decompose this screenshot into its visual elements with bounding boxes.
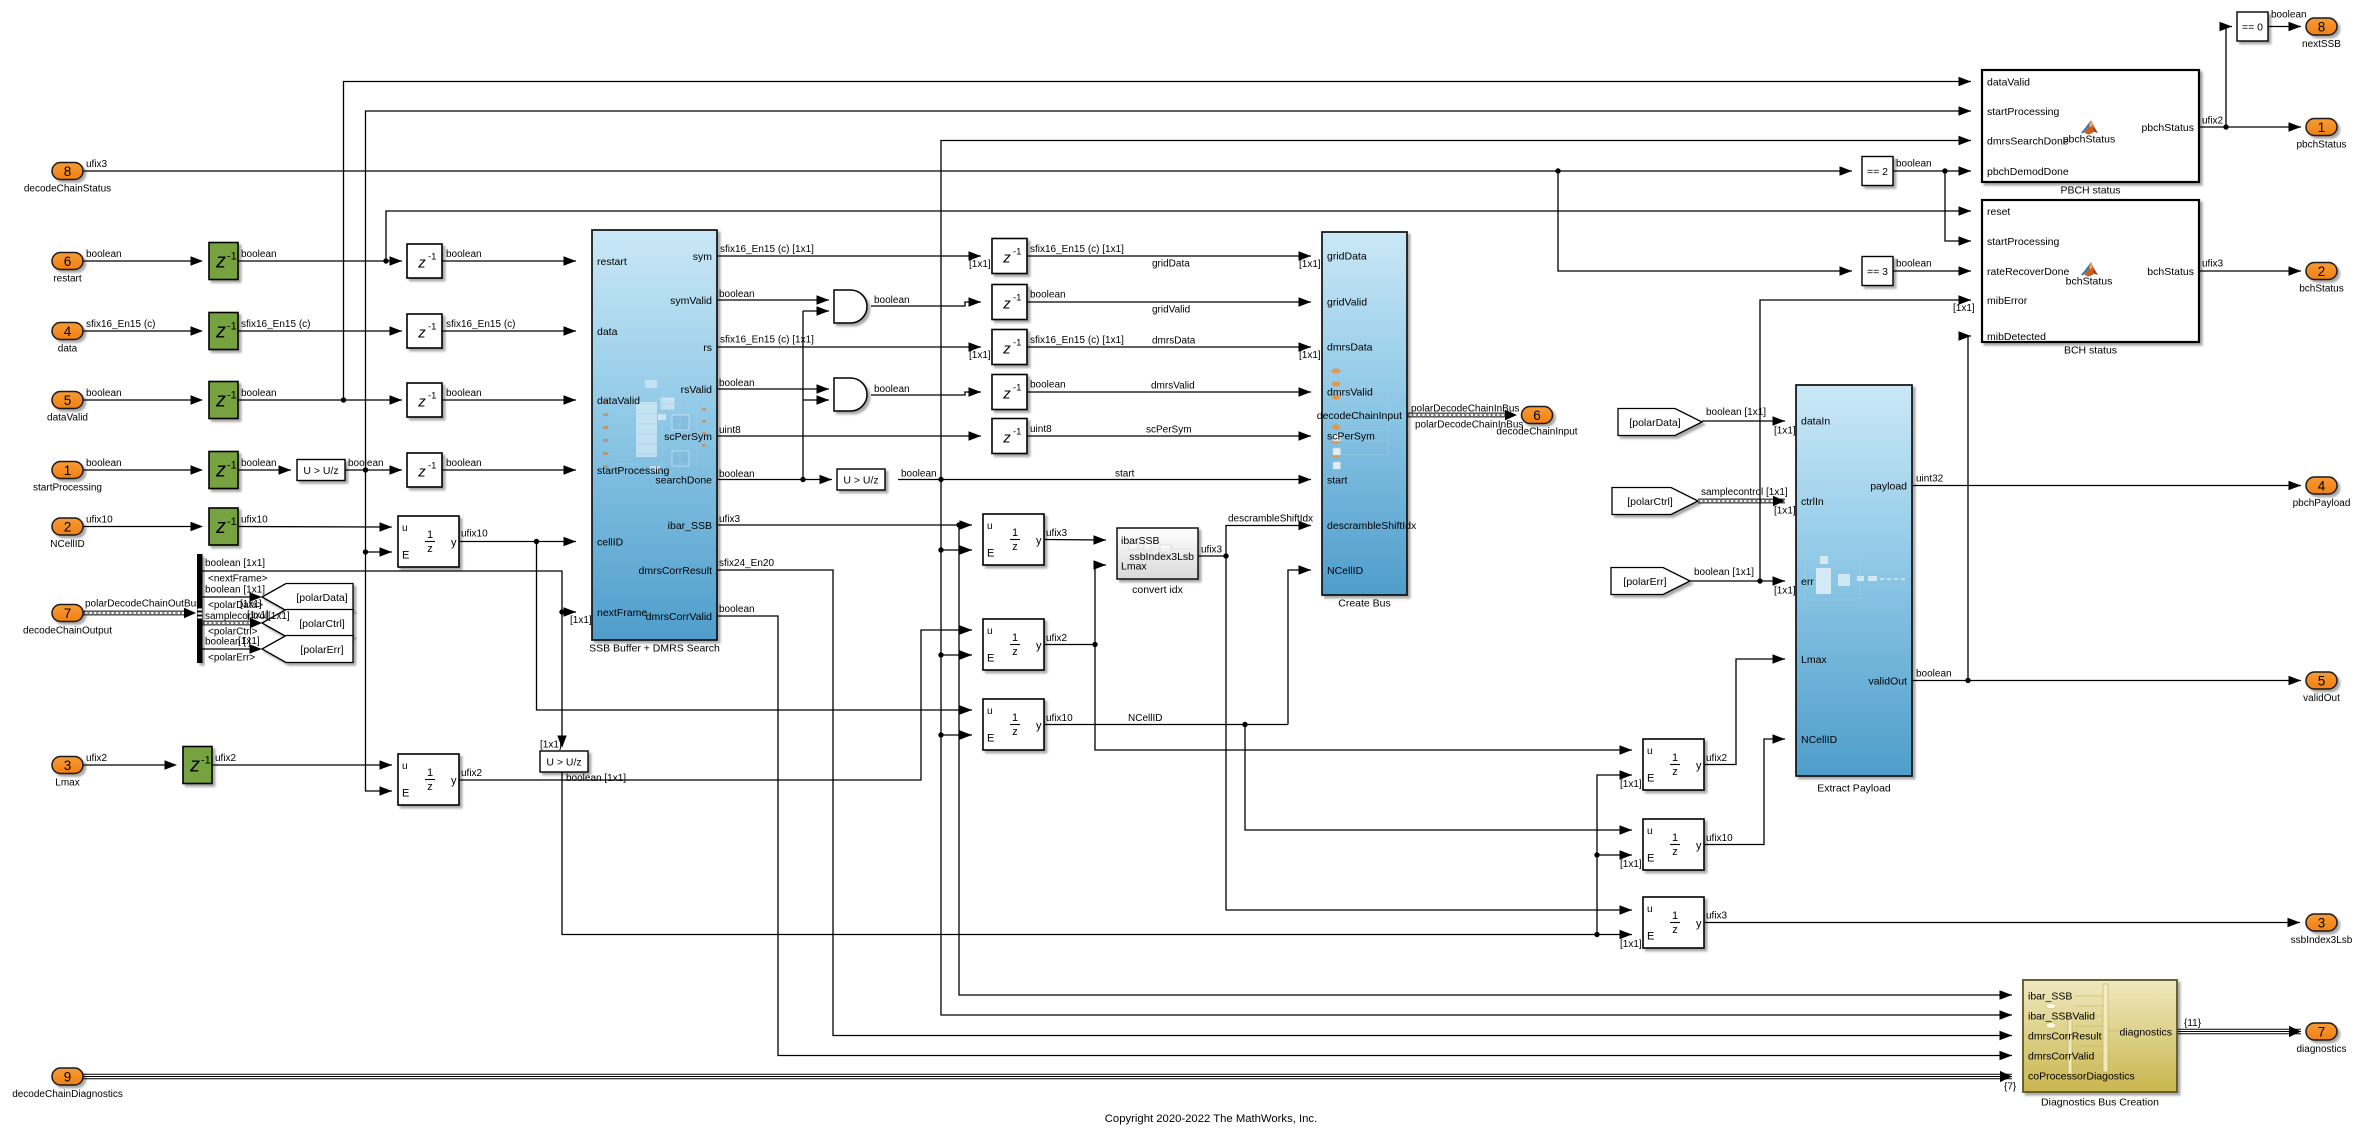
svg-text:scPerSym: scPerSym — [1146, 425, 1192, 436]
svg-text:ufix2: ufix2 — [2202, 116, 2224, 127]
svg-text:1: 1 — [427, 767, 433, 779]
svg-text:sfix16_En15 (c) [1x1]: sfix16_En15 (c) [1x1] — [1030, 244, 1124, 255]
svg-text:boolean: boolean — [1030, 380, 1066, 391]
svg-text:E: E — [1647, 853, 1654, 865]
svg-text:dataValid: dataValid — [597, 395, 640, 407]
svg-text:ufix3: ufix3 — [1046, 528, 1068, 539]
svg-text:boolean [1x1]: boolean [1x1] — [205, 585, 265, 596]
svg-text:boolean: boolean — [446, 249, 482, 260]
svg-text:bchStatus: bchStatus — [2299, 284, 2343, 295]
svg-text:descrambleShiftIdx: descrambleShiftIdx — [1228, 514, 1313, 525]
svg-text:boolean: boolean — [241, 458, 277, 469]
svg-text:5: 5 — [64, 393, 72, 408]
svg-text:dataValid: dataValid — [1987, 77, 2030, 89]
svg-text:[polarErr]: [polarErr] — [300, 644, 343, 656]
svg-text:Lmax: Lmax — [1801, 654, 1827, 666]
svg-text:[polarCtrl]: [polarCtrl] — [1627, 496, 1673, 508]
svg-text:y: y — [451, 775, 457, 787]
svg-text:sfix16_En15 (c) [1x1]: sfix16_En15 (c) [1x1] — [720, 335, 814, 346]
svg-text:1: 1 — [1672, 752, 1678, 764]
svg-text:Diagnostics Bus Creation: Diagnostics Bus Creation — [2041, 1097, 2159, 1109]
svg-text:[1x1]: [1x1] — [240, 599, 262, 610]
svg-text:ufix2: ufix2 — [1046, 633, 1068, 644]
svg-text:mibDetected: mibDetected — [1987, 331, 2046, 343]
svg-text:coProcessorDiagostics: coProcessorDiagostics — [2028, 1071, 2135, 1083]
svg-text:validOut: validOut — [2303, 693, 2340, 704]
svg-text:sfix16_En15 (c) [1x1]: sfix16_En15 (c) [1x1] — [720, 244, 814, 255]
svg-text:U > U/z: U > U/z — [843, 474, 878, 486]
svg-text:[1x1]: [1x1] — [1953, 303, 1975, 314]
svg-text:data: data — [58, 344, 78, 355]
svg-text:1: 1 — [1012, 527, 1018, 539]
svg-text:dmrsCorrResult: dmrsCorrResult — [2028, 1031, 2102, 1043]
svg-text:z: z — [427, 781, 433, 793]
svg-text:-1: -1 — [1013, 293, 1021, 304]
svg-text:z: z — [1002, 386, 1011, 403]
svg-text:decodeChainDiagnostics: decodeChainDiagnostics — [12, 1089, 123, 1100]
svg-text:[1x1]: [1x1] — [1620, 779, 1642, 790]
svg-text:PBCH status: PBCH status — [2060, 185, 2120, 197]
svg-text:3: 3 — [2318, 916, 2326, 931]
svg-text:sfix16_En15 (c) [1x1]: sfix16_En15 (c) [1x1] — [1030, 335, 1124, 346]
svg-text:-1: -1 — [428, 322, 436, 333]
svg-text:dataIn: dataIn — [1801, 416, 1830, 428]
svg-text:sfix24_En20: sfix24_En20 — [719, 558, 774, 569]
svg-text:-1: -1 — [1013, 247, 1021, 258]
svg-text:boolean: boolean — [874, 295, 910, 306]
svg-text:boolean: boolean — [1916, 669, 1952, 680]
svg-text:z: z — [215, 390, 226, 412]
svg-text:-1: -1 — [227, 516, 237, 528]
svg-text:z: z — [417, 394, 426, 411]
svg-text:boolean: boolean — [86, 249, 122, 260]
svg-text:gridValid: gridValid — [1152, 305, 1190, 316]
svg-text:4: 4 — [2318, 479, 2326, 494]
svg-text:boolean: boolean — [719, 604, 755, 615]
svg-text:z: z — [215, 251, 226, 273]
svg-text:boolean: boolean — [1896, 159, 1932, 170]
svg-text:SSB Buffer + DMRS Search: SSB Buffer + DMRS Search — [589, 643, 720, 655]
svg-text:9: 9 — [64, 1070, 72, 1085]
svg-text:[1x1]: [1x1] — [1620, 939, 1642, 950]
svg-text:-1: -1 — [227, 390, 237, 402]
svg-text:boolean: boolean — [446, 458, 482, 469]
svg-text:ufix3: ufix3 — [1706, 911, 1728, 922]
svg-text:diagnostics: diagnostics — [2119, 1027, 2172, 1039]
svg-text:[polarData]: [polarData] — [1629, 417, 1680, 429]
svg-text:z: z — [427, 543, 433, 555]
svg-text:-1: -1 — [1013, 427, 1021, 438]
svg-text:polarDecodeChainOutBus: polarDecodeChainOutBus — [85, 599, 201, 610]
svg-text:<polarErr>: <polarErr> — [208, 653, 255, 664]
svg-text:startProcessing: startProcessing — [33, 483, 102, 494]
svg-text:pbchDemodDone: pbchDemodDone — [1987, 166, 2069, 178]
svg-text:boolean [1x1]: boolean [1x1] — [1706, 407, 1766, 418]
svg-text:pbchStatus: pbchStatus — [2141, 122, 2194, 134]
svg-text:y: y — [1036, 535, 1042, 547]
svg-text:searchDone: searchDone — [655, 475, 712, 487]
svg-text:sfix16_En15 (c): sfix16_En15 (c) — [241, 319, 310, 330]
svg-text:sfix16_En15 (c): sfix16_En15 (c) — [86, 319, 155, 330]
svg-text:boolean: boolean — [2271, 10, 2307, 21]
svg-text:Lmax: Lmax — [55, 778, 79, 789]
svg-text:dmrsCorrValid: dmrsCorrValid — [2028, 1051, 2094, 1063]
svg-text:ibarSSB: ibarSSB — [1121, 535, 1160, 547]
svg-text:u: u — [1647, 826, 1653, 837]
svg-text:dmrsData: dmrsData — [1327, 342, 1373, 354]
svg-text:E: E — [987, 733, 994, 745]
svg-text:z: z — [215, 460, 226, 482]
svg-text:ufix10: ufix10 — [1706, 833, 1733, 844]
svg-text:u: u — [402, 523, 408, 534]
svg-text:u: u — [987, 706, 993, 717]
svg-text:pbchStatus: pbchStatus — [2063, 134, 2116, 146]
svg-text:[1x1]: [1x1] — [1774, 506, 1796, 517]
svg-text:convert idx: convert idx — [1132, 584, 1184, 596]
svg-text:Copyright 2020-2022 The MathWo: Copyright 2020-2022 The MathWorks, Inc. — [1105, 1113, 1317, 1125]
svg-text:bchStatus: bchStatus — [2066, 276, 2113, 288]
svg-text:restart: restart — [53, 274, 82, 285]
svg-text:6: 6 — [64, 254, 72, 269]
svg-text:1: 1 — [427, 529, 433, 541]
svg-text:ufix10: ufix10 — [241, 515, 268, 526]
svg-text:nextSSB: nextSSB — [2302, 39, 2341, 50]
svg-text:E: E — [1647, 931, 1654, 943]
svg-text:U > U/z: U > U/z — [546, 756, 581, 768]
svg-text:uint32: uint32 — [1916, 474, 1944, 485]
svg-text:u: u — [402, 761, 408, 772]
svg-text:3: 3 — [64, 758, 72, 773]
svg-text:u: u — [1647, 746, 1653, 757]
svg-text:reset: reset — [1987, 206, 2010, 218]
svg-text:decodeChainInput: decodeChainInput — [1317, 410, 1402, 422]
svg-text:U > U/z: U > U/z — [303, 465, 338, 477]
svg-text:uint8: uint8 — [719, 425, 741, 436]
svg-text:uint8: uint8 — [1030, 424, 1052, 435]
svg-text:z: z — [417, 325, 426, 342]
svg-text:sfix16_En15 (c): sfix16_En15 (c) — [446, 319, 515, 330]
svg-text:[polarData]: [polarData] — [296, 592, 347, 604]
svg-text:E: E — [402, 788, 409, 800]
svg-text:8: 8 — [64, 164, 72, 179]
svg-text:ibar_SSB: ibar_SSB — [668, 520, 712, 532]
svg-text:scPerSym: scPerSym — [1327, 431, 1375, 443]
svg-text:z: z — [1002, 296, 1011, 313]
svg-text:boolean [1x1]: boolean [1x1] — [1694, 567, 1754, 578]
svg-text:ufix3: ufix3 — [2202, 259, 2224, 270]
svg-text:E: E — [1647, 773, 1654, 785]
svg-text:7: 7 — [64, 606, 72, 621]
svg-text:dataValid: dataValid — [47, 413, 88, 424]
svg-text:dmrsCorrResult: dmrsCorrResult — [638, 565, 712, 577]
svg-text:ufix3: ufix3 — [1201, 545, 1223, 556]
svg-text:-1: -1 — [428, 391, 436, 402]
svg-text:8: 8 — [2318, 20, 2326, 35]
svg-text:boolean: boolean — [719, 289, 755, 300]
svg-text:z: z — [189, 755, 200, 777]
svg-text:z: z — [1012, 726, 1018, 738]
svg-text:dmrsValid: dmrsValid — [1151, 381, 1195, 392]
svg-text:nextFrame: nextFrame — [597, 607, 647, 619]
svg-text:[polarCtrl]: [polarCtrl] — [299, 618, 345, 630]
svg-text:ufix2: ufix2 — [215, 753, 237, 764]
svg-text:pbchStatus: pbchStatus — [2296, 140, 2346, 151]
svg-text:u: u — [987, 626, 993, 637]
svg-text:boolean: boolean — [446, 388, 482, 399]
svg-text:boolean: boolean — [348, 458, 384, 469]
svg-text:boolean [1x1]: boolean [1x1] — [205, 558, 265, 569]
svg-text:u: u — [987, 521, 993, 532]
svg-text:y: y — [1696, 760, 1702, 772]
svg-text:dmrsData: dmrsData — [1152, 336, 1196, 347]
svg-text:NCellID: NCellID — [1327, 565, 1364, 577]
svg-text:boolean: boolean — [86, 458, 122, 469]
svg-text:boolean [1x1]: boolean [1x1] — [566, 773, 626, 784]
svg-text:diagnostics: diagnostics — [2296, 1044, 2346, 1055]
svg-text:-1: -1 — [227, 460, 237, 472]
svg-text:ufix10: ufix10 — [86, 515, 113, 526]
svg-text:1: 1 — [64, 463, 72, 478]
svg-text:ufix10: ufix10 — [461, 529, 488, 540]
svg-text:1: 1 — [1012, 712, 1018, 724]
svg-text:== 0: == 0 — [2242, 22, 2263, 34]
svg-text:[polarErr]: [polarErr] — [1623, 576, 1666, 588]
svg-text:ibar_SSBValid: ibar_SSBValid — [2028, 1011, 2095, 1023]
svg-text:y: y — [1696, 918, 1702, 930]
svg-text:ssbIndex3Lsb: ssbIndex3Lsb — [1129, 551, 1194, 563]
svg-text:startProcessing: startProcessing — [1987, 106, 2060, 118]
svg-text:1: 1 — [1012, 632, 1018, 644]
svg-text:z: z — [1672, 766, 1678, 778]
svg-text:ufix2: ufix2 — [1706, 753, 1728, 764]
svg-text:payload: payload — [1870, 481, 1907, 493]
svg-text:gridData: gridData — [1152, 259, 1190, 270]
svg-text:<nextFrame>: <nextFrame> — [208, 574, 268, 585]
svg-text:dmrsCorrValid: dmrsCorrValid — [646, 611, 712, 623]
svg-text:[1x1]: [1x1] — [570, 615, 592, 626]
svg-text:-1: -1 — [227, 321, 237, 333]
svg-text:dmrsSearchDone: dmrsSearchDone — [1987, 136, 2069, 148]
svg-text:boolean: boolean — [241, 249, 277, 260]
svg-text:restart: restart — [597, 256, 627, 268]
svg-text:boolean: boolean — [874, 384, 910, 395]
svg-text:5: 5 — [2318, 674, 2326, 689]
svg-text:2: 2 — [64, 520, 72, 535]
svg-text:z: z — [1672, 846, 1678, 858]
svg-text:[1x1]: [1x1] — [1620, 859, 1642, 870]
svg-text:boolean: boolean — [86, 388, 122, 399]
svg-text:polarDecodeChainInBus: polarDecodeChainInBus — [1411, 404, 1519, 415]
svg-text:u: u — [1647, 904, 1653, 915]
svg-text:z: z — [1672, 924, 1678, 936]
svg-text:NCellID: NCellID — [1128, 713, 1162, 724]
svg-text:decodeChainOutput: decodeChainOutput — [23, 626, 112, 637]
svg-text:y: y — [1036, 640, 1042, 652]
svg-text:ufix10: ufix10 — [1046, 713, 1073, 724]
svg-text:== 2: == 2 — [1867, 166, 1888, 178]
svg-text:boolean: boolean — [1896, 259, 1932, 270]
svg-text:rs: rs — [703, 342, 712, 354]
svg-text:sym: sym — [693, 251, 713, 263]
svg-text:-1: -1 — [227, 251, 237, 263]
svg-text:4: 4 — [64, 324, 72, 339]
svg-text:-1: -1 — [1013, 383, 1021, 394]
svg-text:7: 7 — [2318, 1025, 2326, 1040]
svg-text:BCH status: BCH status — [2064, 345, 2117, 357]
svg-text:NCellID: NCellID — [1801, 734, 1838, 746]
svg-text:descrambleShiftIdx: descrambleShiftIdx — [1327, 520, 1417, 532]
svg-text:rateRecoverDone: rateRecoverDone — [1987, 266, 2069, 278]
svg-text:[1x1]: [1x1] — [969, 259, 991, 270]
svg-text:1: 1 — [2318, 120, 2326, 135]
svg-text:samplecontrol [1x1]: samplecontrol [1x1] — [1701, 487, 1788, 498]
svg-text:1: 1 — [1672, 910, 1678, 922]
svg-text:decodeChainStatus: decodeChainStatus — [24, 184, 111, 195]
svg-text:-1: -1 — [201, 755, 211, 767]
svg-text:z: z — [1002, 341, 1011, 358]
svg-text:bchStatus: bchStatus — [2147, 266, 2194, 278]
svg-text:]: ] — [248, 637, 251, 648]
svg-text:err: err — [1801, 576, 1814, 588]
svg-text:[1x1]: [1x1] — [1299, 350, 1321, 361]
svg-text:[1x1]: [1x1] — [1299, 259, 1321, 270]
svg-text:1: 1 — [1672, 832, 1678, 844]
svg-text:NCellID: NCellID — [50, 539, 84, 550]
svg-text:rsValid: rsValid — [681, 384, 712, 396]
svg-text:z: z — [1002, 430, 1011, 447]
svg-text:boolean: boolean — [719, 378, 755, 389]
svg-text:gridData: gridData — [1327, 251, 1367, 263]
svg-text:z: z — [215, 516, 226, 538]
svg-text:gridValid: gridValid — [1327, 297, 1367, 309]
svg-text:pbchPayload: pbchPayload — [2293, 498, 2351, 509]
svg-text:[1x1]: [1x1] — [969, 350, 991, 361]
svg-text:{11}: {11} — [2184, 1018, 2202, 1029]
svg-text:z: z — [1002, 250, 1011, 267]
svg-text:Extract Payload: Extract Payload — [1817, 783, 1891, 795]
svg-text:validOut: validOut — [1868, 676, 1907, 688]
svg-text:y: y — [451, 537, 457, 549]
svg-text:-1: -1 — [428, 461, 436, 472]
svg-text:cellID: cellID — [597, 537, 624, 549]
svg-text:z: z — [1012, 646, 1018, 658]
svg-text:6: 6 — [1533, 408, 1541, 423]
svg-text:[1x1]: [1x1] — [247, 610, 269, 621]
svg-text:[1x1]: [1x1] — [540, 740, 562, 751]
svg-text:boolean: boolean — [241, 388, 277, 399]
svg-text:[1x1]: [1x1] — [268, 611, 290, 622]
svg-text:boolean: boolean — [719, 469, 755, 480]
svg-text:dmrsValid: dmrsValid — [1327, 387, 1373, 399]
svg-text:z: z — [417, 464, 426, 481]
svg-text:E: E — [402, 550, 409, 562]
svg-text:y: y — [1696, 840, 1702, 852]
svg-text:ufix3: ufix3 — [719, 514, 741, 525]
svg-text:ibar_SSB: ibar_SSB — [2028, 991, 2072, 1003]
svg-text:[1x1]: [1x1] — [1774, 426, 1796, 437]
svg-text:start: start — [1115, 469, 1135, 480]
svg-text:boolean: boolean — [901, 469, 937, 480]
svg-text:E: E — [987, 653, 994, 665]
svg-text:z: z — [417, 255, 426, 272]
svg-text:ssbIndex3Lsb: ssbIndex3Lsb — [2291, 935, 2353, 946]
svg-text:y: y — [1036, 720, 1042, 732]
svg-text:data: data — [597, 326, 618, 338]
svg-text:symValid: symValid — [670, 295, 712, 307]
svg-text:ufix2: ufix2 — [461, 768, 483, 779]
svg-text:mibError: mibError — [1987, 295, 2028, 307]
svg-text:z: z — [215, 321, 226, 343]
svg-text:start: start — [1327, 475, 1348, 487]
svg-text:2: 2 — [2318, 264, 2326, 279]
svg-text:-1: -1 — [428, 252, 436, 263]
svg-text:scPerSym: scPerSym — [664, 431, 712, 443]
svg-text:[1x1]: [1x1] — [1774, 586, 1796, 597]
svg-text:{7}: {7} — [2004, 1082, 2017, 1093]
svg-text:E: E — [987, 548, 994, 560]
svg-text:-1: -1 — [1013, 338, 1021, 349]
svg-text:z: z — [1012, 541, 1018, 553]
svg-text:ufix2: ufix2 — [86, 753, 108, 764]
svg-text:startProcessing: startProcessing — [1987, 236, 2060, 248]
svg-text:== 3: == 3 — [1867, 266, 1888, 278]
svg-text:polarDecodeChainInBus: polarDecodeChainInBus — [1415, 420, 1523, 431]
svg-text:ufix3: ufix3 — [86, 159, 108, 170]
svg-text:Create Bus: Create Bus — [1338, 598, 1391, 610]
svg-text:boolean: boolean — [1030, 290, 1066, 301]
svg-text:ctrlIn: ctrlIn — [1801, 496, 1824, 508]
